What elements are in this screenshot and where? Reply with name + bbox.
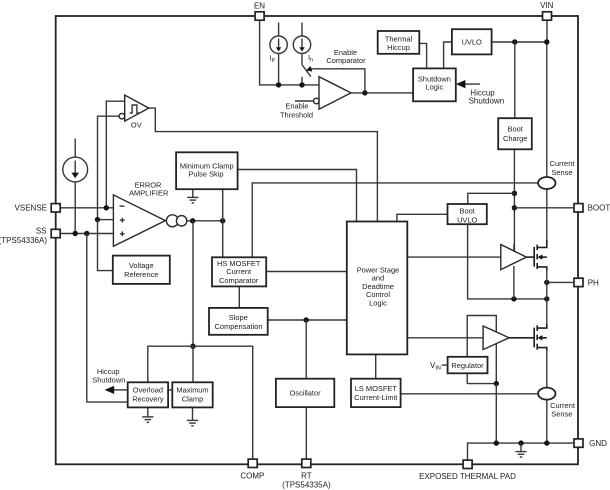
node regulator output junction [494,381,499,386]
svg-text:Pulse Skip: Pulse Skip [188,170,223,179]
block Slope Compensation [209,308,268,335]
wire Hiccup Shutdown into Shutdown Logic with arrowhead [464,83,480,85]
wire SS pin to error amplifier lower input [60,233,113,235]
wire LS current limit to lower current sense [401,393,538,395]
svg-text:Sense: Sense [551,409,572,418]
block LS MOSFET Current-Limit [351,379,401,407]
node COMP net lower junction [190,344,195,349]
svg-text:UVLO: UVLO [457,215,477,224]
pin EXPOSED THERMAL PAD [463,460,472,468]
wire Hiccup Shutdown out of Overload Recovery with arrowhead [113,389,128,391]
svg-text:Logic: Logic [426,83,444,92]
svg-text:Recovery: Recovery [132,395,164,404]
svg-text:Compensation: Compensation [215,322,263,331]
op-amp U2 enable comparator [319,77,351,110]
block HS MOSFET Current Comparator [212,257,266,286]
wire UVLO left to Shutdown Logic [444,42,452,68]
svg-text:Slope: Slope [229,313,248,322]
pin VSENSE [51,204,60,212]
current source SS soft-start [63,157,88,182]
error amplifier gm output symbol circles [166,215,178,227]
svg-text:Charge: Charge [503,134,527,143]
pin VIN [543,12,552,20]
svg-text:Logic: Logic [369,298,387,307]
enable comparator inverting input bubble [314,98,320,104]
node SS / current source junction [73,231,78,236]
ground symbol under Minimum Clamp [187,189,198,203]
svg-text:Enable: Enable [285,102,308,111]
svg-text:GND: GND [589,439,607,448]
pin PH [574,278,583,286]
error amplifier plus marker middle [120,218,125,223]
svg-text:LS MOSFET: LS MOSFET [355,384,398,393]
node COMP net at EA output [190,218,195,223]
wire Minimum Clamp output right into Power Stage top [238,170,357,222]
svg-text:COMP: COMP [240,472,264,481]
node SS / overload recovery junction [84,231,89,236]
block Shutdown Logic [413,68,456,101]
svg-text:Overload: Overload [133,386,163,395]
node ground rail symbol junction [518,440,523,445]
pin SS [51,229,60,237]
wire Ih source stub from top rail [301,23,303,37]
wire Ih source to switch [301,53,303,65]
node HS driver return to PH rail [511,296,516,301]
node VIN rail / boot charge tap [512,39,517,44]
current sense element upper [538,177,555,189]
block Voltage Reference [113,256,170,284]
wire error amplifier middle input [98,219,114,221]
block Power Stage and Deadtime Control Logic [347,222,408,355]
wire Boot UVLO bottom down and right to PH node [468,224,547,299]
node oscillator tap on slope wire [304,317,309,322]
svg-text:Boot: Boot [508,125,524,134]
buffer LS gate driver [483,326,509,350]
wire regulator loop bottom [467,383,496,385]
error amplifier plus marker lower [120,231,125,236]
pin BOOT [574,204,583,212]
wire HS driver bottom to PH rail [513,266,515,299]
svg-text:EN: EN [254,2,265,11]
wire Boot UVLO top pin elbow to boot rail [468,193,515,204]
svg-text:(TPS54336A): (TPS54336A) [0,236,47,245]
svg-text:VSENSE: VSENSE [15,203,47,212]
wire VIN rail down to upper current sense [546,42,548,177]
svg-text:Oscillator: Oscillator [290,388,322,397]
wire Minimum Clamp bottom pin [222,189,224,257]
wire COMP net vertical down [192,221,194,346]
svg-text:Regulator: Regulator [451,361,484,370]
svg-text:UVLO: UVLO [462,37,482,46]
buffer HS gate driver [501,245,527,270]
wire HS comparator bottom to Slope Compensation [238,286,240,308]
svg-text:AMPLIFIER: AMPLIFIER [129,189,169,198]
wire COMP junction left to Overload Recovery top [148,346,193,382]
wire Voltage Reference to middle input [98,220,113,271]
node VIN rail / UVLO wire junction [544,39,549,44]
svg-text:Comparator: Comparator [219,276,259,285]
wire Power Stage to LS gate driver [407,337,483,339]
wire OV comparator output to Power Stage top [149,108,378,221]
svg-text:Reference: Reference [124,270,158,279]
arrowhead hiccup shutdown output [105,386,115,394]
node error amp middle input / vref junction [95,217,100,222]
svg-text:EXPOSED THERMAL PAD: EXPOSED THERMAL PAD [419,472,516,481]
node ground rail current sense junction [544,440,549,445]
pin RT [302,459,311,467]
transistor Q2 LS MOSFET [509,324,547,350]
svg-text:Threshold: Threshold [280,111,313,120]
block Thermal Hiccup [378,31,420,54]
svg-text:Voltage: Voltage [129,261,154,270]
ground symbol under Maximum Clamp [187,407,198,425]
block Boot UVLO [448,204,487,224]
wire switch bottom stub to enable bus [301,77,303,85]
svg-text:Clamp: Clamp [182,395,204,404]
node enable comparator output junction [362,90,367,95]
node boot UVLO tap on boot rail [512,191,517,196]
wire OV lower input from reference node [98,116,120,219]
current sense element lower [538,388,555,400]
svg-text:Current: Current [550,159,576,168]
wire LS MOSFET source down to lower current sense [546,348,548,388]
wire Ip source stub from top rail [278,23,280,37]
node BOOT pin wire junction on boot rail [512,205,517,210]
block Boot Charge [498,118,532,149]
op-amp U3 OV comparator [125,95,149,121]
wire EN pin down to enable bus [260,20,319,85]
wire VSENSE pin to error amplifier inverting input [60,207,113,209]
pin EN [255,12,264,20]
transistor Q1 HS MOSFET [526,240,546,270]
wire oscillator bottom to RT pin [305,407,307,459]
wire HS comparator output to Power Stage [266,271,347,273]
wire UVLO right to VIN rail [492,41,547,43]
current source Ih [293,36,310,53]
svg-text:Current: Current [226,267,252,276]
wire Power Stage to HS gate driver [407,256,501,258]
node ground rail regulator junction [494,440,499,445]
wire Slope Compensation output to Power Stage [268,319,347,321]
block Regulator [448,357,488,374]
block Overload Recovery [128,382,168,407]
OV comparator input bubble [119,113,125,119]
wire Boot Charge output down to BOOT node and HS driver supply [513,149,515,251]
block UVLO [452,29,492,54]
svg-text:PH: PH [588,278,599,287]
pin GND [574,439,583,447]
node PH junction [544,280,549,285]
wire COMP junction right and down to COMP pin [193,346,253,459]
wire regulator junction down to ground rail [495,384,497,444]
pin COMP [248,459,257,467]
error amplifier inverting marker [120,205,125,207]
OV comparator hysteresis glyph [130,105,139,113]
svg-text:Comparator: Comparator [326,56,366,65]
svg-text:SS: SS [36,227,47,236]
svg-text:Boot: Boot [460,206,476,215]
svg-text:Hiccup: Hiccup [387,43,410,52]
block Minimum Clamp Pulse Skip [176,152,238,189]
wire enable comparator output to Shutdown Logic [351,92,413,94]
svg-text:Maximum: Maximum [176,386,208,395]
wire enable comparator feedback to switch with arrowhead [311,69,365,93]
wire regulator loop around LS driver [467,316,496,384]
svg-text:VIN: VIN [540,1,554,10]
wire HS MOSFET source down to PH and LS drain [546,267,548,328]
wire Boot Charge top pin from VIN rail tap [514,42,516,118]
svg-text:(TPS54335A): (TPS54335A) [282,480,331,489]
IC outer border [56,16,578,464]
wire SS charge current source to SS net [74,182,76,234]
svg-text:OV: OV [131,120,142,129]
wire SS charge current source stub [74,139,76,158]
wire Ip source to enable bus [278,53,280,85]
svg-text:Shutdown: Shutdown [469,96,505,105]
wire SS node down to Overload Recovery input [87,234,128,403]
wire ground rail [468,443,574,460]
wire VIN label dash to Regulator [442,364,448,366]
node Ih switch to EN bus junction [299,82,304,87]
block Maximum Clamp [172,382,212,407]
wire Power Stage bottom to LS MOSFET current limit [375,354,377,378]
wire oscillator top pin [305,320,307,379]
svg-text:RT: RT [301,472,312,481]
current source Ip [270,36,287,53]
wire VIN pin down to internal rail [546,20,548,42]
wire Enable Threshold stub into comparator inverting input [295,100,314,102]
arrowhead hiccup shutdown [456,80,466,88]
svg-text:Shutdown: Shutdown [92,375,125,384]
wire Thermal Hiccup to Shutdown Logic [419,43,426,68]
node PH rail junction [544,296,549,301]
ground symbol on ground rail [515,443,526,457]
switch S1 arm (Ih hysteresis switch) [302,65,311,77]
wire link Overload Recovery to Maximum Clamp [168,389,172,391]
wire Boot UVLO left output to Power Stage top [397,214,448,221]
ground symbol under Overload Recovery [142,407,153,422]
wire HS driver supply from boot rail [513,245,515,258]
wire upper current sense down to HS MOSFET drain [546,189,548,248]
op-amp U1 error amplifier [113,195,165,246]
node Ip to EN bus junction [276,82,281,87]
svg-text:BOOT: BOOT [588,204,610,213]
node Minimum Clamp bottom pin junction [220,218,225,223]
wire COMP junction down to Maximum Clamp top [192,346,194,382]
wire PH node to PH pin [547,281,574,283]
wire BOOT pin to boot rail [514,207,573,209]
block Oscillator [276,379,334,407]
wire lower current sense down to ground rail [546,400,548,444]
wire current sense signal to HS MOSFET current comparator [252,183,538,257]
svg-text:Current-Limit: Current-Limit [354,393,398,402]
wire error amplifier output to COMP node [187,220,223,222]
node VSENSE / OV junction [104,205,109,210]
wire OV top input from VSENSE node [106,101,124,208]
svg-text:Sense: Sense [551,168,572,177]
